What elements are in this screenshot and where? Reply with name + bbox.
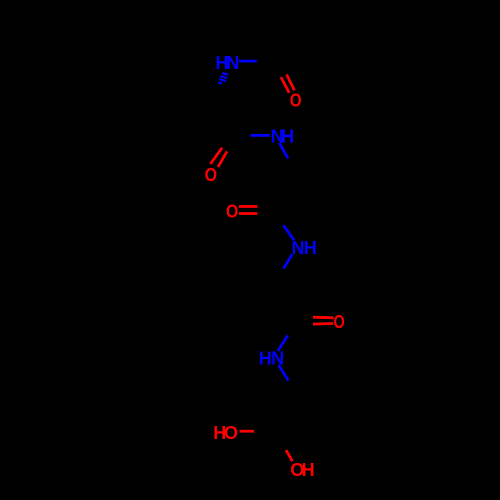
svg-text:O: O: [290, 90, 302, 111]
svg-text:HN: HN: [259, 348, 284, 368]
svg-text:O: O: [333, 311, 344, 332]
svg-text:NH: NH: [271, 126, 294, 146]
svg-text:O: O: [205, 164, 217, 186]
svg-text:HN: HN: [216, 53, 240, 73]
svg-text:OH: OH: [290, 460, 314, 480]
svg-text:HO: HO: [213, 423, 238, 443]
svg-text:NH: NH: [292, 238, 317, 258]
svg-text:O: O: [226, 200, 238, 222]
